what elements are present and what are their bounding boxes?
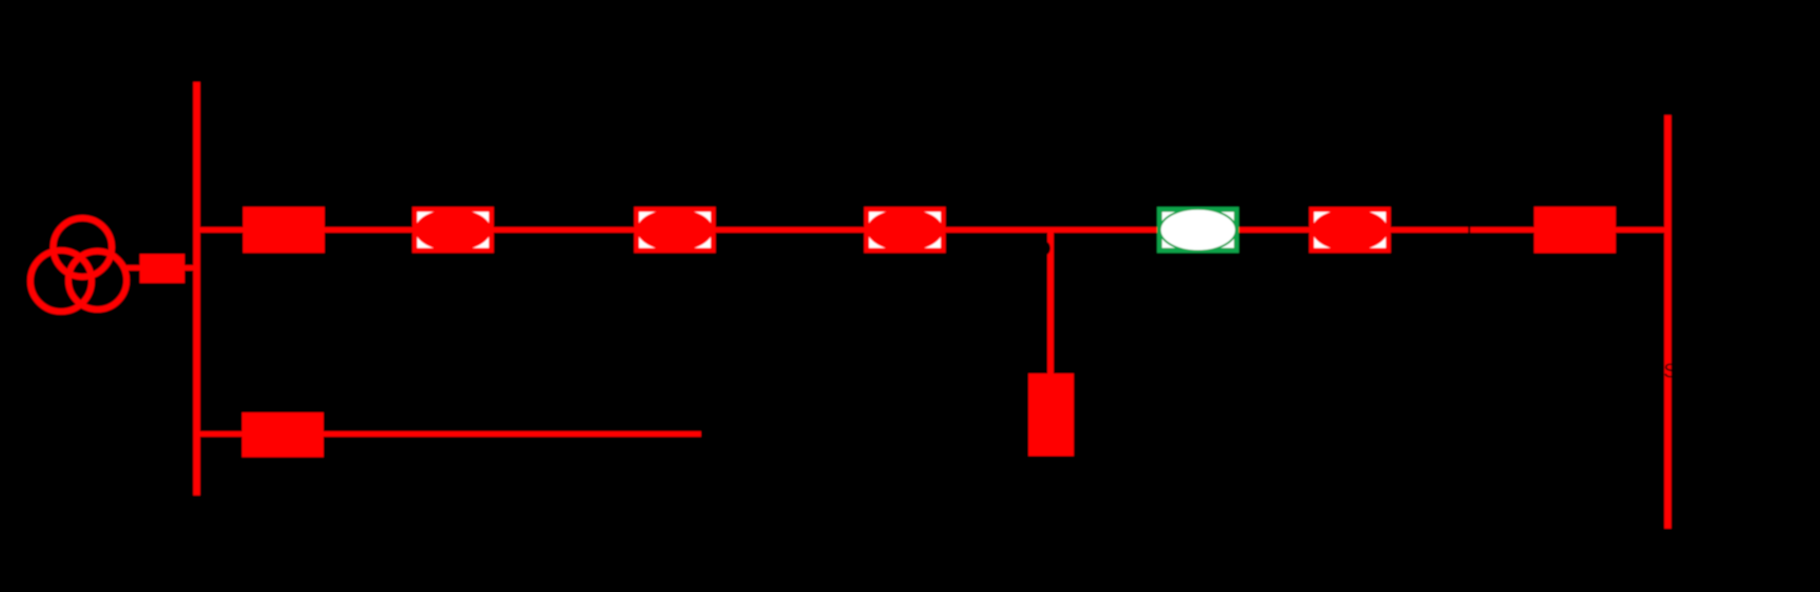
- disconnector Q2 (closed): [412, 207, 494, 253]
- disconnector Q6 (closed): [1309, 207, 1391, 253]
- label tick (black text stem crossing feeder line): [1468, 225, 1470, 234]
- busbar A (left station busbar): [193, 82, 200, 495]
- disconnector Q4 (closed): [864, 207, 946, 253]
- wire: bottom feeder line from busbar A: [200, 431, 701, 437]
- svg-text:S: S: [1664, 360, 1677, 382]
- wire: transformer stub to busbar A: [124, 265, 200, 271]
- wire: tap line down from top feeder to load: [1047, 230, 1053, 374]
- busbar B (right station busbar): [1664, 115, 1671, 528]
- transformer link block: [140, 254, 185, 283]
- wire: top feeder line from busbar A to busbar B: [200, 227, 1665, 233]
- breaker Q8 (closed, solid, bottom feeder): [242, 413, 324, 458]
- breaker Q7 (closed, solid): [1534, 207, 1616, 253]
- breaker Q1 (closed, solid): [243, 207, 325, 253]
- transformer T1 (three-winding, three overlapping circles): [30, 218, 126, 311]
- load block (tap feeder termination): [1028, 374, 1073, 457]
- disconnector Q3 (closed): [634, 207, 716, 253]
- disconnector Q5 (open, green): [1157, 207, 1239, 253]
- label glyph (black label bullet at tap junction): [1041, 242, 1050, 255]
